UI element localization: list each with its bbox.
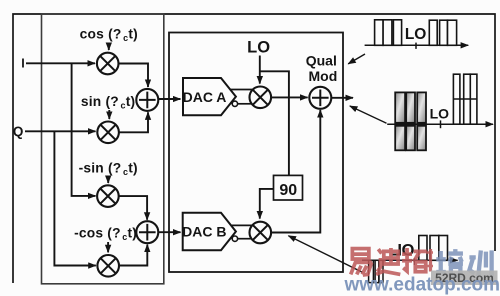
svg-text:Mod: Mod [309, 68, 338, 84]
svg-text:I: I [21, 57, 24, 71]
svg-text:DAC B: DAC B [182, 224, 226, 240]
svg-text:-sin (?ct): -sin (?ct) [79, 160, 138, 177]
svg-text:LO: LO [430, 105, 450, 121]
svg-text:sin (?ct): sin (?ct) [81, 94, 135, 111]
svg-text:cos (?ct): cos (?ct) [80, 26, 138, 43]
svg-text:-cos (?ct): -cos (?ct) [74, 226, 137, 243]
svg-text:Qual: Qual [306, 52, 337, 68]
svg-text:Q: Q [13, 124, 24, 139]
svg-text:90: 90 [279, 182, 297, 199]
svg-text:DAC A: DAC A [183, 89, 227, 105]
svg-text:www.edatop.com: www.edatop.com [344, 275, 500, 296]
svg-text:LO: LO [405, 26, 427, 43]
svg-text:LO: LO [247, 39, 270, 57]
